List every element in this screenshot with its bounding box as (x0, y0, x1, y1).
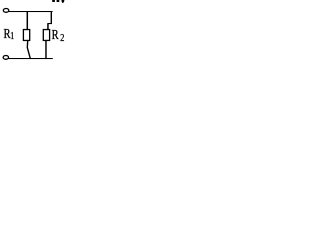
svg-text:R: R (52, 27, 59, 42)
svg-text:1: 1 (10, 30, 14, 41)
svg-text:R: R (4, 26, 11, 41)
svg-text:2: 2 (60, 32, 64, 44)
